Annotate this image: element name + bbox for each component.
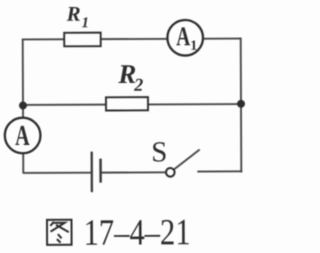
svg-text:A: A [15, 120, 30, 152]
svg-text:A: A [176, 21, 190, 51]
svg-text:17–4–21: 17–4–21 [83, 212, 190, 253]
svg-text:R: R [66, 2, 81, 26]
svg-text:1: 1 [190, 39, 197, 54]
svg-text:1: 1 [81, 15, 89, 31]
svg-text:2: 2 [133, 75, 143, 95]
svg-text:S: S [151, 136, 167, 168]
